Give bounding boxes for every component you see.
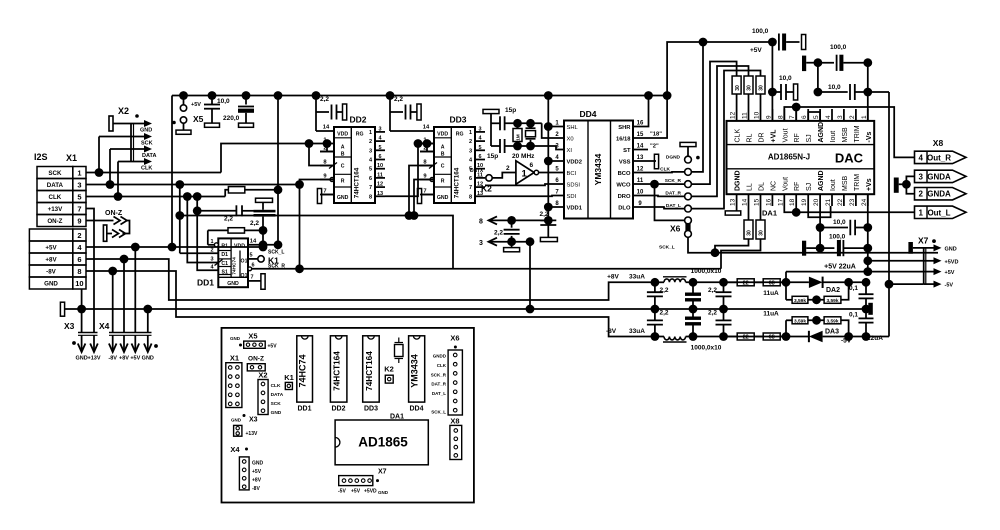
svg-text:5: 5 xyxy=(378,145,381,151)
svg-text:K2: K2 xyxy=(384,365,394,374)
svg-text:19: 19 xyxy=(801,198,808,206)
svg-text:SCK: SCK xyxy=(141,141,153,147)
svg-text:9: 9 xyxy=(77,217,81,226)
divider resistors 3,59k bottom xyxy=(785,320,787,336)
wire DD3 Q12 to DD4 SDSI xyxy=(485,184,564,185)
ground X5 xyxy=(183,123,185,130)
svg-text:K1: K1 xyxy=(284,373,294,382)
svg-text:33uA: 33uA xyxy=(629,274,645,281)
resistor 1M oscillator xyxy=(517,123,519,128)
svg-text:DGND: DGND xyxy=(666,155,681,161)
DD4 VSS ground xyxy=(633,160,656,162)
wire DD1 VDD pin 14 xyxy=(248,244,278,246)
wire DD2 clock feed xyxy=(309,144,334,166)
wire crystal to DD4 X0 xyxy=(542,123,564,138)
svg-text:74HCT164: 74HCT164 xyxy=(353,167,360,198)
PCB connector X3 xyxy=(243,414,246,417)
svg-text:2: 2 xyxy=(849,115,856,119)
svg-text:15: 15 xyxy=(754,198,761,206)
svg-text:DAT_R: DAT_R xyxy=(431,382,446,387)
svg-text:XI: XI xyxy=(567,148,573,154)
svg-text:10: 10 xyxy=(754,111,761,119)
svg-text:+5V: +5V xyxy=(252,469,262,475)
svg-text:GND: GND xyxy=(252,461,264,467)
wire -8V rail from X1 pin8 xyxy=(86,271,613,337)
wire SCK vertical to DD2 pin1 xyxy=(221,144,320,173)
svg-text:24: 24 xyxy=(861,198,868,206)
wire CLK feed from X1 pin5 xyxy=(117,162,119,197)
svg-text:+8V: +8V xyxy=(252,478,262,484)
wire DD2 A-B tie xyxy=(326,144,328,152)
svg-text:0,1: 0,1 xyxy=(849,312,858,319)
svg-text:DD2: DD2 xyxy=(349,115,366,125)
svg-text:CLK: CLK xyxy=(735,129,742,143)
PCB crystal xyxy=(398,338,400,343)
svg-text:+5V 22uA: +5V 22uA xyxy=(824,264,856,271)
svg-text:DD1: DD1 xyxy=(297,406,311,413)
svg-text:DATA: DATA xyxy=(47,182,64,189)
node SCK row X1 pin1 xyxy=(86,172,221,174)
svg-text:ON-Z: ON-Z xyxy=(47,218,62,225)
wire RF top strap xyxy=(795,107,797,121)
polarized cap 100,0 at +Vs xyxy=(802,241,806,256)
svg-text:10,0: 10,0 xyxy=(779,75,792,82)
svg-text:Out_L: Out_L xyxy=(927,208,950,217)
svg-text:74HC74: 74HC74 xyxy=(298,354,308,387)
svg-text:8: 8 xyxy=(77,267,81,276)
svg-text:1000,0x10: 1000,0x10 xyxy=(691,268,722,275)
svg-text:X1: X1 xyxy=(230,354,239,363)
ground bar GND rail right end xyxy=(868,303,873,315)
wire X2 CLK arrow xyxy=(118,161,146,163)
jumper K1 xyxy=(248,258,258,260)
svg-text:VDD: VDD xyxy=(337,131,348,137)
svg-text:+13V: +13V xyxy=(246,431,258,437)
svg-text:2,2: 2,2 xyxy=(494,230,503,237)
svg-text:O1: O1 xyxy=(241,259,248,265)
svg-text:7: 7 xyxy=(77,205,81,214)
svg-text:4: 4 xyxy=(918,153,923,162)
svg-text:0,1: 0,1 xyxy=(849,285,858,292)
connector X6 pin field xyxy=(685,156,692,163)
svg-text:BCO: BCO xyxy=(618,171,631,177)
svg-text:Iout: Iout xyxy=(830,179,837,191)
PCB chip DD1 74HC74 xyxy=(297,336,313,402)
svg-text:3,59k: 3,59k xyxy=(794,318,806,324)
svg-text:DD1: DD1 xyxy=(197,278,214,288)
svg-text:5: 5 xyxy=(813,115,820,119)
svg-text:+5V: +5V xyxy=(351,489,361,495)
wire DD1 C1 feed from CLK xyxy=(187,197,218,263)
connector X8 pin 2 GNDA xyxy=(915,188,967,200)
wire to X6 DGND pin xyxy=(687,147,689,157)
svg-text:7: 7 xyxy=(789,115,796,119)
wire DATA feed from X1 pin3 xyxy=(109,149,111,185)
svg-text:X7: X7 xyxy=(378,469,387,476)
svg-text:+5V: +5V xyxy=(268,344,278,350)
svg-text:SCK_R: SCK_R xyxy=(268,263,285,269)
svg-text:SHR: SHR xyxy=(618,125,631,131)
wire DD1 S1 feed from CLK xyxy=(197,197,218,271)
svg-text:Vout: Vout xyxy=(782,177,789,191)
svg-text:DATX: DATX xyxy=(470,168,484,174)
connector X8 pin 3 GNDA xyxy=(915,170,967,182)
svg-text:DRO: DRO xyxy=(618,194,631,200)
svg-text:DAT_R: DAT_R xyxy=(665,191,681,197)
svg-text:VDD: VDD xyxy=(437,131,448,137)
wire DD2 reset feed xyxy=(300,180,335,269)
connector X7 xyxy=(908,242,913,254)
svg-text:12: 12 xyxy=(730,111,737,119)
DD1 Q1-inverted pin xyxy=(248,267,252,271)
svg-text:2,2: 2,2 xyxy=(708,310,717,317)
svg-text:3: 3 xyxy=(479,240,483,247)
svg-text:6: 6 xyxy=(478,154,481,160)
wire -Vs to cap network xyxy=(867,63,869,121)
svg-text:GND: GND xyxy=(227,281,239,287)
svg-text:X2: X2 xyxy=(118,106,129,116)
svg-text:YM3434: YM3434 xyxy=(410,354,420,388)
wire DD3 clock feed xyxy=(409,166,434,216)
svg-text:3: 3 xyxy=(837,115,844,119)
svg-text:MSB: MSB xyxy=(842,176,849,192)
svg-text:B: B xyxy=(341,152,345,158)
svg-text:13: 13 xyxy=(377,191,383,197)
svg-text:1000,0x10: 1000,0x10 xyxy=(691,345,722,352)
capacitor 220,0 at X5 xyxy=(245,96,247,105)
svg-text:2,2: 2,2 xyxy=(660,310,669,317)
svg-text:ON-Z: ON-Z xyxy=(248,356,264,363)
svg-text:RL: RL xyxy=(747,133,754,142)
wire SCK_R long line xyxy=(252,268,721,270)
wire +13V from X1 pin7 xyxy=(86,209,94,333)
svg-text:X3: X3 xyxy=(64,321,75,331)
svg-text:YM3434: YM3434 xyxy=(593,153,603,185)
svg-text:+5V: +5V xyxy=(191,102,201,108)
connector X8 pin 1 Out_L xyxy=(915,206,967,218)
connector X8 pin 4 Out_R xyxy=(915,151,967,163)
svg-text:X8: X8 xyxy=(933,138,944,148)
svg-text:SDSI: SDSI xyxy=(567,183,581,189)
svg-text:TRIM: TRIM xyxy=(854,174,861,191)
svg-text:3: 3 xyxy=(369,148,372,154)
svg-text:2: 2 xyxy=(369,139,372,145)
svg-text:1: 1 xyxy=(469,130,472,136)
resistor 1k pullup upper xyxy=(228,187,244,193)
svg-text:DLO: DLO xyxy=(618,206,631,212)
svg-text:R1: R1 xyxy=(221,244,228,250)
wire Vout top to X8 Out_R xyxy=(784,107,914,157)
svg-text:GND: GND xyxy=(378,490,389,495)
svg-text:DA2: DA2 xyxy=(826,287,840,294)
svg-text:O1: O1 xyxy=(241,273,248,279)
svg-text:6: 6 xyxy=(378,154,381,160)
strap SJ-Iout bottom xyxy=(808,206,830,217)
svg-text:-5V: -5V xyxy=(841,338,852,345)
svg-text:3,59k: 3,59k xyxy=(826,298,838,304)
resistor 68 top xyxy=(763,279,780,286)
svg-text:6: 6 xyxy=(251,262,254,268)
diode DA2 shunt regulator xyxy=(786,281,809,283)
ground bar X6 top xyxy=(680,142,696,146)
svg-text:14: 14 xyxy=(423,125,430,131)
resistor 22 bottom xyxy=(737,333,754,340)
IC DA1 AD1865N-J body xyxy=(727,121,875,194)
svg-text:3,59k: 3,59k xyxy=(826,318,838,324)
svg-text:2: 2 xyxy=(77,231,81,240)
svg-text:1: 1 xyxy=(918,208,923,217)
svg-text:2,2: 2,2 xyxy=(320,96,329,103)
svg-text:22: 22 xyxy=(837,198,844,206)
svg-text:X4: X4 xyxy=(99,321,110,331)
wire DD1 R1 feed xyxy=(208,244,215,246)
wire X7 GND arrow xyxy=(913,247,936,249)
svg-text:CLK: CLK xyxy=(271,383,281,389)
svg-text:18: 18 xyxy=(789,198,796,206)
svg-text:S1: S1 xyxy=(222,270,228,276)
svg-text:100,0: 100,0 xyxy=(830,44,847,51)
svg-text:GNDA: GNDA xyxy=(927,190,951,199)
svg-text:+8V: +8V xyxy=(119,356,129,362)
ground bar DD1 top xyxy=(256,198,273,202)
svg-text:+8V: +8V xyxy=(45,257,57,264)
svg-text:Vout: Vout xyxy=(782,128,789,142)
wire +8V rail from X1 pin6 xyxy=(86,259,613,300)
crystal 20 MHz xyxy=(530,123,532,127)
svg-text:CLK: CLK xyxy=(437,363,447,368)
PCB chip DD4 YM3434 xyxy=(409,336,425,402)
svg-text:LL: LL xyxy=(747,183,754,191)
svg-text:10,0: 10,0 xyxy=(828,84,841,91)
svg-text:DATA: DATA xyxy=(271,392,284,398)
svg-text:X2: X2 xyxy=(258,371,267,380)
svg-text:RF: RF xyxy=(794,182,801,191)
svg-text:C: C xyxy=(341,164,345,170)
svg-text:AGND: AGND xyxy=(818,122,825,143)
wire K2 to inverter xyxy=(492,173,516,178)
svg-text:220,0: 220,0 xyxy=(223,115,240,122)
DD3 clock slash xyxy=(429,163,437,169)
svg-text:2,2: 2,2 xyxy=(708,287,717,294)
wire X2 spine xyxy=(130,124,132,162)
svg-text:K2: K2 xyxy=(481,184,492,194)
svg-text:68: 68 xyxy=(769,335,775,341)
decoupling cap 2,2 at DD2 xyxy=(315,96,317,132)
svg-text:21: 21 xyxy=(825,198,832,206)
bus wire X6 CLK to +5V rail xyxy=(691,42,703,172)
ground bar DD1 xyxy=(248,280,261,282)
svg-text:R: R xyxy=(441,179,445,185)
svg-text:1M: 1M xyxy=(516,134,521,141)
polarized cap 100,0 AGND top xyxy=(802,56,806,72)
svg-text:2,2: 2,2 xyxy=(660,287,669,294)
svg-text:DL: DL xyxy=(759,182,766,191)
electrolytic 1000,0 top xyxy=(692,282,694,292)
svg-text:X7: X7 xyxy=(918,236,929,246)
wire -5V right vertical xyxy=(888,92,890,337)
svg-text:GNDD: GNDD xyxy=(433,354,447,359)
wire DD4 SHR to rail xyxy=(633,96,649,127)
connector X5 xyxy=(180,105,186,111)
connector X2 xyxy=(109,116,113,131)
svg-text:GNDA: GNDA xyxy=(927,172,951,181)
IC DD1 74HC74 body xyxy=(218,238,248,287)
svg-text:X1: X1 xyxy=(66,153,77,163)
svg-text:22: 22 xyxy=(743,280,749,286)
svg-text:R: R xyxy=(341,179,345,185)
wire DRO to X6 DAT_R xyxy=(633,195,685,198)
svg-text:"18": "18" xyxy=(650,132,662,138)
svg-text:2: 2 xyxy=(918,190,923,199)
svg-text:X6: X6 xyxy=(670,224,681,234)
wire +5V vertical bus at DD4 xyxy=(547,96,549,221)
svg-text:10,0: 10,0 xyxy=(833,219,846,226)
svg-text:14: 14 xyxy=(323,125,330,131)
svg-text:100,0: 100,0 xyxy=(752,28,769,35)
DD1 R1 pin circle xyxy=(214,243,218,247)
capacitor 2,2 filter bottom-right xyxy=(723,309,725,320)
svg-text:C1: C1 xyxy=(221,261,228,267)
crystal oscillator ground bar xyxy=(483,109,499,113)
svg-text:+5V: +5V xyxy=(945,270,955,276)
wire SCK feed from X1 pin1 xyxy=(98,137,100,173)
svg-text:+Vs: +Vs xyxy=(866,178,873,191)
svg-text:1: 1 xyxy=(861,115,868,119)
svg-text:GND: GND xyxy=(945,247,957,253)
capacitor 2,2 between refs xyxy=(507,216,516,225)
wire RF bottom join xyxy=(795,206,797,212)
svg-text:11: 11 xyxy=(742,112,749,119)
svg-text:X5: X5 xyxy=(193,114,204,124)
decoupling cap 2,2 at DD3 xyxy=(389,96,391,132)
resistor 1k pullup lower xyxy=(228,228,245,233)
svg-text:A: A xyxy=(341,145,345,151)
ground bar DGND xyxy=(736,206,738,211)
svg-text:X8: X8 xyxy=(450,417,459,426)
svg-text:9: 9 xyxy=(765,115,772,119)
svg-text:22: 22 xyxy=(743,335,749,341)
jumper bar X6 xyxy=(685,223,690,231)
svg-text:SJ: SJ xyxy=(806,183,813,191)
wire DD4 VDD1 tie xyxy=(548,206,564,208)
wire +5V output xyxy=(785,272,787,283)
svg-text:RF: RF xyxy=(794,133,801,142)
svg-text:10: 10 xyxy=(377,163,383,169)
svg-text:RG: RG xyxy=(356,132,364,138)
capacitor 2,2 filter bottom-left xyxy=(654,309,656,320)
svg-text:3: 3 xyxy=(918,172,923,181)
wire DLO to X6 DAT_L xyxy=(633,207,685,209)
DD1 clock slash xyxy=(215,260,223,266)
svg-text:3: 3 xyxy=(77,181,81,190)
svg-text:X5: X5 xyxy=(248,332,257,341)
node DATA row X1 pin3 xyxy=(86,184,300,186)
svg-text:SCK_R: SCK_R xyxy=(665,178,682,184)
svg-text:33uA: 33uA xyxy=(629,328,645,335)
svg-text:DD4: DD4 xyxy=(409,406,423,413)
svg-text:2,2: 2,2 xyxy=(250,220,259,227)
wire X2 GND arrow xyxy=(113,123,146,125)
DA1 bottom pin stubs xyxy=(736,194,738,206)
svg-text:11uA: 11uA xyxy=(763,311,779,318)
wire X6 SCK_L out xyxy=(688,237,938,252)
svg-text:2: 2 xyxy=(469,139,472,145)
ground bar DD3 xyxy=(417,189,421,204)
svg-text:3: 3 xyxy=(478,126,481,132)
IC DD4 YM3434 body xyxy=(564,121,633,219)
svg-text:DD2: DD2 xyxy=(331,406,345,413)
svg-text:BCI: BCI xyxy=(567,171,577,177)
svg-text:DD3: DD3 xyxy=(449,115,466,125)
svg-text:TRIM: TRIM xyxy=(854,125,861,142)
wire DD3 reset feed xyxy=(414,180,434,216)
svg-text:DAT_L: DAT_L xyxy=(666,203,681,209)
wire X2 DATA arrow xyxy=(110,148,146,150)
svg-text:30: 30 xyxy=(735,85,741,91)
svg-text:2,2: 2,2 xyxy=(394,96,403,103)
diode DA3 shunt regulator xyxy=(786,336,809,338)
svg-text:-8V: -8V xyxy=(46,269,57,276)
node crystal dots xyxy=(513,119,522,128)
svg-text:5: 5 xyxy=(369,167,372,173)
DD4 ST stub xyxy=(633,149,648,151)
svg-text:GND: GND xyxy=(231,418,242,423)
wire ref3 to gnd vertical xyxy=(529,242,531,309)
bus wire X6 DAT_R to resistor R-RL xyxy=(691,66,748,196)
svg-text:6: 6 xyxy=(77,255,81,264)
svg-text:11: 11 xyxy=(377,172,383,178)
node CLK row X1 pin5 xyxy=(86,196,225,198)
svg-text:-5V: -5V xyxy=(338,489,346,495)
bus wire X6 SCK_R to resistor R-CLK xyxy=(691,62,736,185)
svg-text:7: 7 xyxy=(323,189,326,195)
resistor 30 at DA1 CLK xyxy=(732,76,741,94)
resistor 30 at DA1 DL xyxy=(756,220,765,239)
svg-text:GND: GND xyxy=(142,356,154,362)
svg-text:SCK: SCK xyxy=(48,170,62,177)
resistor 68 bottom xyxy=(763,333,780,340)
svg-text:SCK_L: SCK_L xyxy=(659,244,675,250)
svg-text:17: 17 xyxy=(777,198,784,206)
svg-text:WCO: WCO xyxy=(616,183,631,189)
svg-text:-8V: -8V xyxy=(108,356,117,362)
svg-text:1: 1 xyxy=(522,169,528,180)
junction dots on +5V rail xyxy=(179,91,188,100)
svg-text:+13V: +13V xyxy=(88,356,101,362)
svg-text:X0: X0 xyxy=(567,137,574,143)
svg-text:GND: GND xyxy=(75,356,87,362)
resistor 30 at DA1 LL xyxy=(744,220,753,239)
svg-text:+5V: +5V xyxy=(750,47,762,54)
divider resistors 3,59k top xyxy=(785,282,787,300)
svg-text:I2S: I2S xyxy=(34,152,48,162)
svg-text:3: 3 xyxy=(378,126,381,132)
svg-text:CLK: CLK xyxy=(141,166,152,172)
wire DD4 VDD2 tie xyxy=(548,160,564,162)
wire DD4 16/18 to rail xyxy=(633,96,667,139)
wire LL resistor to SCK_L xyxy=(715,239,749,253)
svg-text:6: 6 xyxy=(369,176,372,182)
svg-text:CLK: CLK xyxy=(660,167,670,173)
electrolytic 1000,0 bottom xyxy=(692,309,694,317)
IC DD3 74HCT164 body xyxy=(434,127,475,203)
DD2 reset pin circle xyxy=(330,178,334,182)
wire WCO to X6 SCK_R xyxy=(633,183,685,185)
svg-text:MSB: MSB xyxy=(842,127,849,143)
svg-text:-8V: -8V xyxy=(606,328,617,335)
capacitor 2,2 filter top-right xyxy=(723,282,725,292)
capacitor 10,0 -Vs xyxy=(817,63,819,92)
